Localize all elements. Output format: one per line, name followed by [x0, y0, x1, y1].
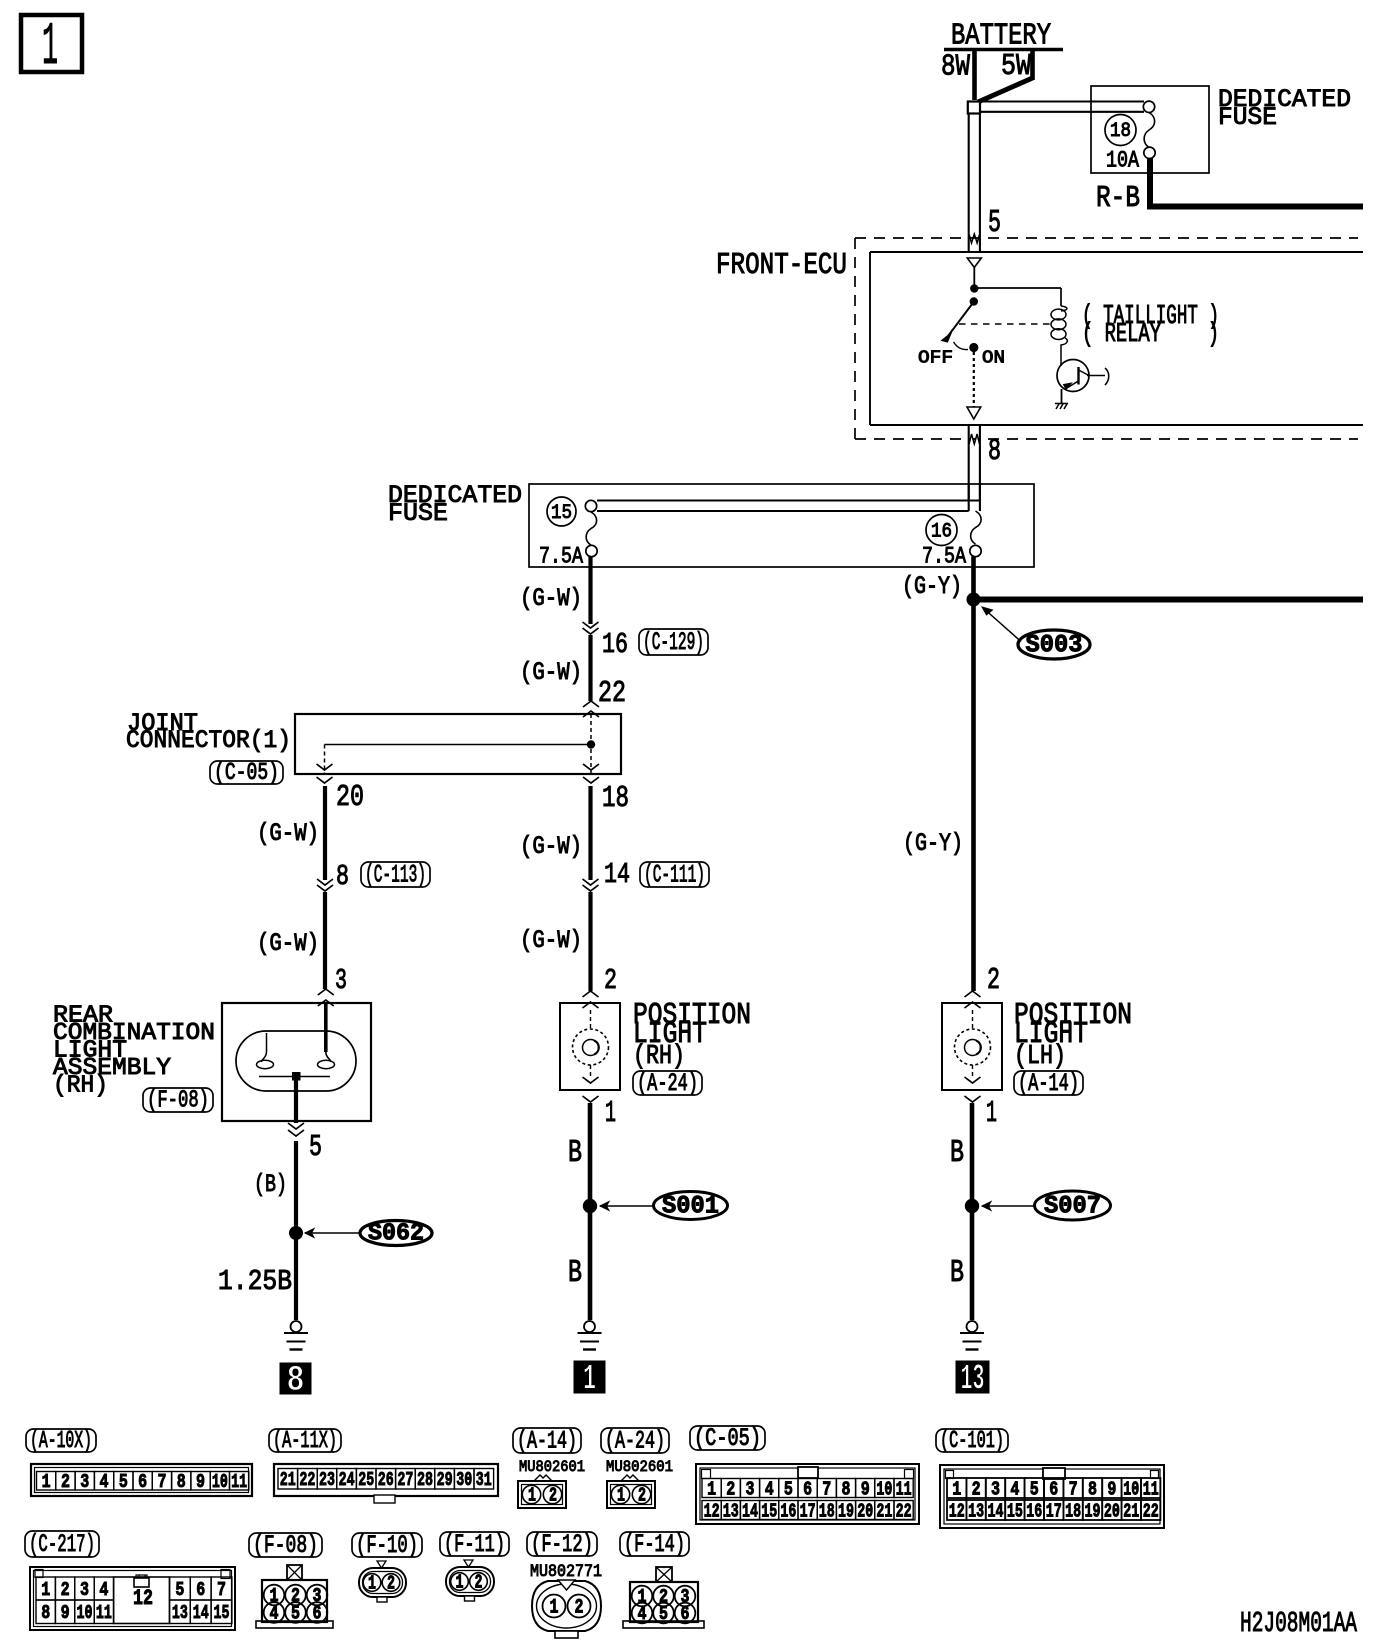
wire battery feed 5 (to FRONT-ECU) — [968, 114, 970, 253]
svg-text:4: 4 — [638, 1603, 647, 1625]
svg-text:20: 20 — [857, 1500, 873, 1522]
svg-text:7.5A: 7.5A — [539, 544, 583, 570]
svg-text:3: 3 — [80, 1471, 89, 1493]
wire pin 5 out of rear light — [294, 1080, 298, 1123]
connector label C-129 — [639, 629, 708, 655]
svg-text:( RELAY: ( RELAY — [1082, 320, 1161, 350]
svg-text:7: 7 — [822, 1478, 831, 1500]
svg-text:4: 4 — [100, 1471, 109, 1493]
svg-text:(G-W): (G-W) — [520, 926, 582, 955]
svg-text:15: 15 — [761, 1500, 777, 1522]
svg-text:16: 16 — [1026, 1500, 1042, 1522]
svg-text:2: 2 — [387, 1573, 395, 1595]
svg-text:8: 8 — [988, 435, 1001, 469]
connector F-14 pinout — [656, 1567, 672, 1582]
fuse 16 — [971, 511, 982, 544]
svg-text:(LH): (LH) — [1014, 1042, 1066, 1072]
connector label F-11 — [440, 1532, 509, 1556]
taillight relay switch arm — [948, 302, 974, 337]
svg-text:7: 7 — [1069, 1478, 1078, 1500]
node splice S001 — [583, 1199, 597, 1213]
svg-text:MU802601: MU802601 — [519, 1458, 585, 1476]
wire (B) rear light to splice — [294, 1141, 298, 1320]
svg-text:(F-08): (F-08) — [147, 1088, 209, 1115]
svg-text:(G-W): (G-W) — [520, 658, 582, 687]
svg-text:): ) — [1208, 320, 1219, 350]
svg-text:2: 2 — [575, 1597, 584, 1620]
svg-text:MU802601: MU802601 — [606, 1458, 673, 1476]
node joint connector junction — [587, 740, 595, 748]
svg-text:(C-111): (C-111) — [644, 861, 705, 890]
svg-text:(C-05): (C-05) — [694, 1424, 761, 1453]
svg-text:5: 5 — [1030, 1478, 1039, 1500]
svg-text:(G-W): (G-W) — [257, 929, 319, 958]
connector label C-101 — [936, 1429, 1008, 1452]
svg-text:15: 15 — [551, 502, 572, 525]
position light RH box — [560, 1003, 620, 1090]
svg-text:4: 4 — [765, 1478, 774, 1500]
svg-text:1: 1 — [368, 1573, 376, 1595]
connector F-10 pinout — [377, 1561, 386, 1568]
svg-text:FUSE: FUSE — [388, 499, 448, 528]
svg-text:1: 1 — [986, 1097, 997, 1131]
svg-text:13: 13 — [172, 1602, 188, 1624]
svg-text:FRONT-ECU: FRONT-ECU — [716, 249, 847, 283]
svg-text:7: 7 — [157, 1471, 166, 1493]
svg-text:6: 6 — [1049, 1478, 1058, 1500]
svg-text:3: 3 — [746, 1478, 755, 1500]
splice S001 — [654, 1192, 728, 1220]
position light LH box — [942, 1003, 1002, 1090]
svg-text:31: 31 — [476, 1469, 492, 1491]
connector A-24 pinout — [621, 1475, 639, 1481]
svg-text:8: 8 — [41, 1602, 50, 1624]
svg-text:(F-14): (F-14) — [624, 1530, 685, 1559]
position light RH bulb — [590, 1010, 592, 1029]
connector F-11 pinout — [464, 1560, 473, 1567]
wire pin 1 position light RH — [583, 1096, 599, 1102]
transistor Q (relay driver) — [1057, 360, 1089, 392]
svg-text:1: 1 — [952, 1478, 961, 1500]
svg-text:6: 6 — [196, 1579, 205, 1601]
svg-text:15: 15 — [214, 1602, 230, 1624]
svg-text:13: 13 — [968, 1500, 984, 1522]
svg-text:1: 1 — [528, 1485, 536, 1507]
svg-text:2: 2 — [638, 1485, 646, 1507]
connector label F-14 — [620, 1532, 689, 1556]
svg-text:25: 25 — [358, 1469, 374, 1491]
connector label A-10X — [26, 1429, 96, 1452]
svg-text:3: 3 — [335, 964, 347, 997]
svg-text:S007: S007 — [1044, 1192, 1101, 1221]
wire G-W to joint connector — [588, 635, 592, 701]
wire G-W middle branch — [588, 786, 592, 880]
wire pin 1 position light LH — [965, 1096, 981, 1102]
svg-text:6: 6 — [313, 1603, 322, 1625]
svg-text:(A-14): (A-14) — [1018, 1069, 1079, 1098]
svg-text:8: 8 — [336, 860, 349, 893]
svg-text:9: 9 — [1107, 1478, 1116, 1500]
svg-text:2: 2 — [604, 964, 617, 997]
svg-text:1: 1 — [42, 1471, 51, 1493]
svg-text:OFF: OFF — [918, 349, 953, 369]
wire G-W from fuse 15 — [588, 557, 592, 625]
svg-text:18: 18 — [819, 1500, 835, 1522]
svg-text:1.25B: 1.25B — [218, 1265, 292, 1298]
battery lead 5W wire — [1030, 51, 1035, 80]
svg-text:B: B — [950, 1136, 964, 1171]
svg-text:12: 12 — [133, 1586, 153, 1611]
svg-text:8: 8 — [842, 1478, 851, 1500]
svg-text:19: 19 — [1085, 1500, 1101, 1522]
svg-text:(B): (B) — [254, 1170, 287, 1199]
svg-text:15: 15 — [1007, 1500, 1023, 1522]
connector label C-111 — [640, 862, 709, 887]
svg-text:10: 10 — [212, 1471, 228, 1493]
wire to relay coil — [974, 287, 1061, 289]
fuse 15 circle label — [547, 497, 576, 526]
node relay common — [970, 284, 978, 292]
svg-text:6: 6 — [138, 1471, 147, 1493]
taillight relay coil — [1061, 306, 1067, 311]
svg-text:S062: S062 — [368, 1221, 424, 1248]
svg-text:(C-217): (C-217) — [29, 1530, 95, 1559]
svg-text:(C-05): (C-05) — [214, 760, 279, 787]
svg-text:13: 13 — [961, 1359, 985, 1400]
wire crossing C-129 — [583, 622, 599, 628]
wire relay output (dotted) — [973, 352, 975, 407]
connector label F-10 — [352, 1533, 422, 1557]
svg-text:19: 19 — [838, 1500, 854, 1522]
svg-text:(G-W): (G-W) — [257, 819, 319, 848]
connector C-217 pinout — [30, 1567, 235, 1630]
ground id 13 — [956, 1361, 989, 1393]
svg-text:5: 5 — [119, 1471, 128, 1493]
wire ECU output 8 — [968, 426, 970, 500]
transistor ground hatch — [1056, 403, 1068, 409]
joint connector exit chevrons — [317, 764, 333, 770]
svg-text:11: 11 — [896, 1478, 912, 1500]
svg-text:(G-W): (G-W) — [520, 584, 582, 613]
svg-text:5: 5 — [175, 1579, 184, 1601]
transistor emitter wire — [1061, 389, 1063, 403]
svg-text:S003: S003 — [1026, 631, 1083, 660]
svg-text:(F-10): (F-10) — [356, 1531, 418, 1560]
svg-text:9: 9 — [61, 1602, 70, 1624]
connector label F-08 — [143, 1088, 213, 1112]
svg-text:8: 8 — [1088, 1478, 1097, 1500]
connector label C-05 (pinout) — [690, 1426, 765, 1450]
page number box 1 — [21, 15, 82, 72]
svg-text:FUSE: FUSE — [1218, 103, 1277, 132]
svg-text:6: 6 — [803, 1478, 812, 1500]
svg-text:22: 22 — [1143, 1500, 1159, 1522]
svg-text:2: 2 — [726, 1478, 735, 1500]
svg-text:12: 12 — [704, 1500, 720, 1522]
connector label F-08 (pinout) — [249, 1533, 322, 1557]
fuse 16 circle label — [926, 515, 957, 546]
svg-text:4: 4 — [270, 1603, 279, 1625]
svg-text:22: 22 — [896, 1500, 912, 1522]
svg-text:27: 27 — [397, 1469, 413, 1491]
connector label F-12 — [527, 1532, 597, 1556]
svg-text:1: 1 — [42, 14, 58, 82]
rear combination light box — [222, 1003, 371, 1121]
connector A-14 pinout — [534, 1475, 552, 1481]
wire relay common — [973, 268, 975, 289]
svg-text:(F-12): (F-12) — [531, 1530, 593, 1559]
svg-text:(C-129): (C-129) — [643, 628, 704, 657]
splice S003 arrow — [986, 611, 1021, 642]
svg-text:(RH): (RH) — [53, 1073, 108, 1100]
svg-text:9: 9 — [861, 1478, 870, 1500]
rear combination light bulb — [236, 1031, 356, 1091]
ground (rear combination light) — [291, 1321, 302, 1332]
connector label A-24 (pinout) — [601, 1428, 669, 1453]
svg-text:2: 2 — [972, 1478, 981, 1500]
svg-text:4: 4 — [99, 1579, 108, 1601]
svg-text:B: B — [950, 1256, 964, 1291]
connector label A-24 — [633, 1071, 702, 1095]
svg-text:(RH): (RH) — [633, 1042, 685, 1072]
svg-text:(F-11): (F-11) — [444, 1530, 505, 1559]
svg-text:(A-14): (A-14) — [517, 1427, 577, 1456]
svg-text:14: 14 — [988, 1500, 1004, 1522]
svg-text:16: 16 — [780, 1500, 796, 1522]
node relay ON contact — [969, 343, 978, 352]
svg-text:21: 21 — [280, 1469, 296, 1491]
svg-text:1: 1 — [41, 1579, 50, 1601]
splice S062 — [360, 1221, 432, 1246]
svg-text:10: 10 — [876, 1478, 892, 1500]
svg-text:5: 5 — [291, 1603, 300, 1625]
svg-text:5: 5 — [988, 206, 1001, 241]
svg-text:H2J08M01AA: H2J08M01AA — [1240, 1607, 1358, 1640]
svg-text:5: 5 — [309, 1131, 322, 1165]
svg-text:2: 2 — [61, 1471, 70, 1493]
svg-text:8W: 8W — [941, 50, 970, 85]
joint connector internal bus — [590, 714, 592, 774]
FRONT-ECU inner box — [870, 251, 1363, 253]
svg-text:9: 9 — [196, 1471, 205, 1493]
svg-text:17: 17 — [800, 1500, 816, 1522]
svg-text:16: 16 — [602, 628, 628, 661]
connector label C-217 — [25, 1531, 99, 1557]
svg-text:(A-10X): (A-10X) — [30, 1428, 92, 1455]
svg-text:(G-Y): (G-Y) — [902, 572, 962, 601]
fuse 15 — [585, 500, 596, 511]
svg-text:10: 10 — [1123, 1478, 1139, 1500]
wire B to ground (RH) — [588, 1212, 593, 1320]
connector label C-113 — [361, 862, 430, 887]
svg-text:S001: S001 — [662, 1192, 719, 1221]
svg-text:3: 3 — [80, 1579, 89, 1601]
wire crossing C-113 — [317, 879, 333, 885]
wire taillight bus (to next page) — [974, 597, 1364, 603]
svg-text:R-B: R-B — [1096, 182, 1140, 216]
svg-text:1: 1 — [583, 1359, 596, 1400]
splice S003 — [1018, 630, 1090, 659]
connector label A-14 — [1014, 1071, 1083, 1095]
dedicated fuse block (top) — [1091, 86, 1209, 173]
svg-text:(G-Y): (G-Y) — [903, 829, 963, 858]
connector label A-11X — [269, 1429, 341, 1452]
svg-text:(A-24): (A-24) — [637, 1069, 698, 1098]
wire crossing mark at ECU exit — [969, 434, 980, 446]
svg-text:21: 21 — [1123, 1500, 1139, 1522]
wire G-W left branch — [323, 786, 327, 880]
svg-text:MU802771: MU802771 — [530, 1563, 602, 1582]
node splice S007 — [965, 1199, 979, 1213]
ground (position light LH) — [967, 1321, 978, 1332]
node splice S062 — [289, 1226, 303, 1240]
svg-text:12: 12 — [949, 1500, 965, 1522]
svg-text:8: 8 — [287, 1360, 305, 1401]
svg-text:29: 29 — [437, 1469, 453, 1491]
connector A-10X — [31, 1464, 252, 1496]
wire R-B — [1150, 158, 1363, 207]
svg-text:14: 14 — [193, 1602, 209, 1624]
svg-text:6: 6 — [681, 1603, 690, 1625]
svg-text:(A-24): (A-24) — [605, 1427, 665, 1456]
connector C-05 pinout — [696, 1464, 919, 1524]
svg-text:20: 20 — [1104, 1500, 1120, 1522]
connector A-11X — [274, 1464, 498, 1496]
svg-text:22: 22 — [598, 677, 626, 711]
node bulb common terminal — [293, 1073, 301, 1081]
ground id 1 — [574, 1361, 605, 1393]
wire G-W to rear combination light — [323, 892, 327, 989]
svg-text:24: 24 — [339, 1469, 355, 1491]
svg-text:5: 5 — [659, 1603, 668, 1625]
connector label A-14 (pinout) — [513, 1428, 581, 1453]
svg-text:B: B — [568, 1136, 582, 1171]
svg-text:(G-W): (G-W) — [520, 832, 582, 861]
svg-text:7.5A: 7.5A — [922, 544, 966, 570]
svg-text:1: 1 — [605, 1097, 616, 1131]
node battery junction — [968, 102, 980, 114]
connector C-101 pinout — [940, 1465, 1164, 1528]
svg-text:5: 5 — [784, 1478, 793, 1500]
svg-text:2: 2 — [475, 1572, 483, 1594]
wire G-W to position light RH — [588, 892, 592, 991]
svg-text:2: 2 — [61, 1579, 70, 1601]
wire B to ground (LH) — [970, 1212, 975, 1320]
svg-text:2: 2 — [549, 1485, 557, 1507]
svg-text:26: 26 — [378, 1469, 394, 1491]
svg-text:4: 4 — [1010, 1478, 1019, 1500]
svg-text:30: 30 — [456, 1469, 472, 1491]
svg-text:2: 2 — [987, 964, 1000, 998]
svg-text:17: 17 — [1046, 1500, 1062, 1522]
svg-text:(A-11X): (A-11X) — [273, 1428, 337, 1455]
svg-text:20: 20 — [336, 781, 364, 815]
fuse 18 — [1105, 115, 1136, 146]
svg-text:28: 28 — [417, 1469, 433, 1491]
svg-text:B: B — [568, 1256, 582, 1291]
svg-text:18: 18 — [1110, 120, 1131, 143]
ground (position light RH) — [584, 1321, 595, 1332]
svg-text:14: 14 — [742, 1500, 758, 1522]
svg-text:14: 14 — [604, 858, 630, 891]
svg-text:1: 1 — [617, 1485, 625, 1507]
wire crossing mark at ECU boundary — [969, 233, 980, 243]
taillight relay input triangle — [967, 258, 981, 268]
svg-text:10: 10 — [77, 1602, 93, 1624]
connector F-12 pinout — [532, 1581, 601, 1631]
svg-text:CONNECTOR(1): CONNECTOR(1) — [126, 726, 291, 755]
connector F-08 pinout — [287, 1565, 302, 1580]
svg-text:11: 11 — [231, 1471, 247, 1493]
svg-text:1: 1 — [707, 1478, 716, 1500]
svg-text:3: 3 — [991, 1478, 1000, 1500]
svg-text:8: 8 — [177, 1471, 186, 1493]
relay output triangle — [967, 407, 981, 419]
svg-text:22: 22 — [299, 1469, 315, 1491]
svg-text:10A: 10A — [1106, 148, 1139, 174]
svg-text:13: 13 — [723, 1500, 739, 1522]
svg-text:23: 23 — [319, 1469, 335, 1491]
splice S007 — [1035, 1191, 1111, 1220]
svg-text:21: 21 — [876, 1500, 892, 1522]
wire fuse feed inside fuse block — [597, 500, 980, 502]
relay coil dashed link — [959, 323, 1051, 325]
ground id 8 — [280, 1363, 311, 1394]
svg-text:18: 18 — [602, 782, 629, 816]
svg-text:(C-113): (C-113) — [365, 861, 426, 890]
svg-text:(C-101): (C-101) — [940, 1428, 1004, 1455]
svg-text:16: 16 — [931, 521, 952, 544]
svg-text:11: 11 — [1143, 1478, 1159, 1500]
svg-text:11: 11 — [96, 1602, 112, 1624]
svg-text:7: 7 — [217, 1579, 226, 1601]
svg-text:(F-08): (F-08) — [253, 1531, 318, 1560]
svg-text:1: 1 — [456, 1572, 464, 1594]
position light LH bulb — [972, 1010, 974, 1029]
battery lead 8W wire — [972, 51, 977, 100]
wire crossing C-111 — [583, 879, 599, 885]
svg-text:18: 18 — [1065, 1500, 1081, 1522]
svg-text:ON: ON — [982, 349, 1005, 369]
wire battery to dedicated fuse 18 — [979, 100, 1144, 102]
svg-text:1: 1 — [550, 1597, 559, 1620]
